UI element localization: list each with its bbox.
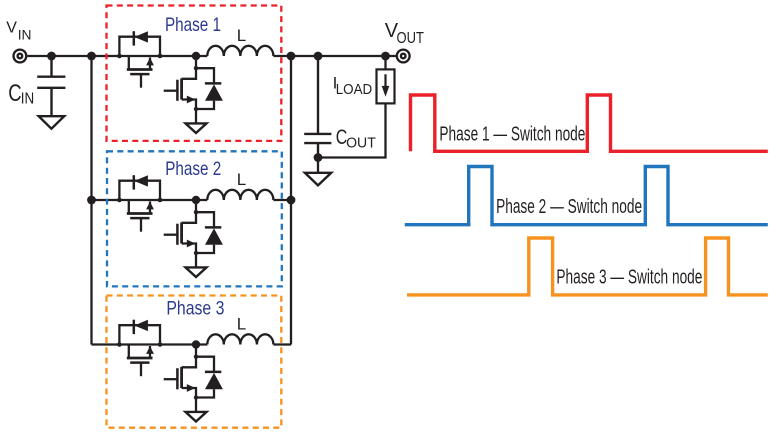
Q1 gate plate bbox=[130, 73, 149, 76]
Q4 body-diode triangle bbox=[205, 228, 223, 244]
inductor L2 bbox=[207, 190, 273, 200]
Q1 channel bar bbox=[127, 68, 153, 71]
node: output bus phase2 bbox=[287, 196, 296, 205]
ground stem (phase 1) bbox=[195, 109, 197, 123]
wire: inductor out to VOUT terminal bbox=[273, 55, 397, 57]
node Q1 drain bbox=[117, 54, 122, 59]
label VIN bbox=[6, 20, 31, 43]
waveform: phase 2 switch node (blue) bbox=[405, 167, 768, 225]
label ILOAD bbox=[333, 73, 373, 98]
Q6 body-diode branch bbox=[196, 357, 214, 372]
Q4 gate lead bbox=[164, 234, 178, 236]
Q5 gate lead bbox=[140, 363, 142, 377]
Q2 body-diode anode return bbox=[196, 101, 214, 109]
ground stem (output) bbox=[317, 158, 319, 173]
Q6 source arrow bbox=[187, 384, 196, 392]
Q4 body-diode anode return bbox=[196, 245, 214, 253]
Q2 gate lead bbox=[164, 90, 178, 92]
capacitor COUT bbox=[304, 56, 331, 158]
Q5 body-diode triangle bbox=[134, 320, 148, 331]
node: CIN junction bbox=[47, 52, 56, 61]
wire SW1 to Q6 drain bbox=[195, 345, 197, 357]
svg-text:IN: IN bbox=[21, 91, 34, 108]
node: switch node SW3 bbox=[192, 340, 200, 348]
output terminal VOUT bbox=[397, 50, 410, 63]
node Q2 source bbox=[194, 107, 198, 111]
node Q5 source bbox=[158, 342, 163, 347]
ground (phase 1) bbox=[186, 123, 207, 133]
svg-text:IN: IN bbox=[18, 27, 32, 43]
Q3 drain stub bbox=[128, 200, 130, 214]
wire: left input bus bbox=[90, 56, 92, 345]
wire SW1 to Q2 drain bbox=[195, 56, 197, 68]
node: output bus phase1 bbox=[287, 52, 296, 61]
Q1 gate lead bbox=[140, 74, 142, 88]
Q6 body-diode anode return bbox=[196, 389, 214, 397]
Q5 source arrow bbox=[146, 346, 154, 354]
node Q4 drain junction bbox=[194, 210, 198, 214]
Q5 source stub bbox=[149, 346, 151, 358]
wire: phase3 input bbox=[92, 343, 208, 345]
Q3 source arrow bbox=[146, 202, 154, 210]
node Q3 drain bbox=[117, 198, 122, 203]
ground (phase 3) bbox=[186, 412, 207, 422]
Q1 body-diode cathode bar bbox=[133, 31, 136, 45]
node Q6 source bbox=[194, 395, 198, 399]
ground stem (phase 2) bbox=[195, 253, 197, 267]
Q6 gate plate bbox=[176, 368, 179, 389]
current source ILOAD box bbox=[377, 69, 395, 103]
Q5 body-diode cathode bar bbox=[133, 320, 136, 334]
wire: phase3 output to bus bbox=[273, 343, 291, 345]
Phase 2 dashed box bbox=[107, 151, 282, 286]
node: left bus top bbox=[87, 52, 96, 61]
node: switch node SW2 bbox=[192, 196, 200, 204]
Q2 source arrow bbox=[187, 96, 196, 104]
Q3 gate lead bbox=[140, 218, 142, 232]
svg-text:Phase 2: Phase 2 bbox=[165, 158, 221, 180]
Q1 drain stub bbox=[128, 56, 130, 70]
svg-text:Phase 1 — Switch node: Phase 1 — Switch node bbox=[439, 123, 585, 146]
ground (phase 2) bbox=[186, 267, 207, 277]
Phase 3 circuit bbox=[117, 315, 273, 422]
node: ILOAD tap bbox=[381, 52, 390, 61]
low-side FET Q6 drain path bbox=[182, 357, 196, 368]
high-side FET Q3 body-diode loop bbox=[119, 181, 160, 200]
svg-text:V: V bbox=[6, 20, 17, 37]
high-side FET Q1 body-diode loop bbox=[119, 37, 160, 56]
Q2 source path bbox=[182, 100, 196, 110]
Q2 gate plate bbox=[176, 80, 179, 101]
node Q2 drain junction bbox=[194, 66, 198, 70]
high-side FET Q5 body-diode loop bbox=[119, 325, 160, 344]
ground stem (phase 3) bbox=[195, 398, 197, 412]
Q6 channel bar bbox=[180, 367, 183, 388]
label CIN bbox=[8, 80, 34, 108]
Phase 2 circuit bbox=[117, 170, 273, 277]
wire: phase2 input bbox=[92, 199, 208, 201]
node: COUT tap bbox=[314, 52, 323, 61]
Q3 gate plate bbox=[130, 217, 149, 220]
wire: output bus bbox=[290, 56, 292, 345]
Q5 gate plate bbox=[130, 361, 149, 364]
wire: ILOAD top bbox=[384, 56, 386, 69]
low-side FET Q4 drain path bbox=[182, 212, 196, 223]
Q4 gate plate bbox=[176, 224, 179, 245]
Q3 channel bar bbox=[127, 212, 153, 215]
Q6 gate lead bbox=[164, 378, 178, 380]
Q6 body-diode cathode bar bbox=[205, 371, 221, 374]
svg-text:Phase 3 — Switch node: Phase 3 — Switch node bbox=[556, 266, 702, 289]
low-side FET Q2 drain path bbox=[182, 68, 196, 79]
ground (output) bbox=[305, 173, 331, 186]
ground (CIN) bbox=[39, 116, 64, 129]
Phase 1 dashed box bbox=[107, 6, 282, 141]
Q1 body-diode triangle bbox=[134, 31, 148, 42]
input terminal VIN bbox=[14, 50, 27, 63]
Phase 3 dashed box bbox=[107, 296, 282, 428]
svg-text:Phase 2 — Switch node: Phase 2 — Switch node bbox=[496, 195, 642, 218]
Q2 channel bar bbox=[180, 78, 183, 99]
node Q6 drain junction bbox=[194, 355, 198, 359]
wire: phase2 output to bus bbox=[273, 199, 291, 201]
Q3 source stub bbox=[149, 202, 151, 214]
waveform: phase 3 switch node (orange) bbox=[407, 238, 768, 295]
node: switch node SW1 bbox=[192, 52, 200, 60]
svg-text:L: L bbox=[237, 315, 246, 334]
svg-text:Phase 3: Phase 3 bbox=[166, 298, 224, 320]
capacitor CIN bbox=[37, 56, 65, 116]
ILOAD arrow bbox=[382, 74, 390, 97]
svg-text:LOAD: LOAD bbox=[336, 81, 373, 98]
Q4 body-diode branch bbox=[196, 212, 214, 227]
svg-text:L: L bbox=[237, 26, 246, 45]
Q2 body-diode cathode bar bbox=[205, 82, 221, 85]
Q6 body-diode triangle bbox=[205, 373, 223, 389]
Q1 source arrow bbox=[146, 58, 154, 66]
Q5 drain stub bbox=[128, 345, 130, 359]
waveform: phase 1 switch node (red) bbox=[411, 95, 768, 151]
Q4 source path bbox=[182, 244, 196, 254]
Q6 source path bbox=[182, 388, 196, 398]
Q4 channel bar bbox=[180, 222, 183, 243]
Q3 body-diode triangle bbox=[134, 175, 148, 186]
svg-text:L: L bbox=[237, 170, 246, 189]
node Q3 source bbox=[158, 198, 163, 203]
svg-text:OUT: OUT bbox=[346, 135, 376, 152]
wire: ILOAD bottom return bbox=[318, 103, 386, 157]
Q5 channel bar bbox=[127, 357, 153, 360]
Q2 body-diode branch bbox=[196, 68, 214, 83]
label COUT bbox=[336, 126, 376, 151]
Q4 body-diode cathode bar bbox=[205, 226, 221, 229]
node: output ground junction bbox=[314, 153, 323, 162]
Phase 1 circuit bbox=[117, 26, 273, 133]
label VOUT bbox=[385, 20, 424, 47]
svg-text:OUT: OUT bbox=[397, 30, 425, 47]
svg-text:Phase 1: Phase 1 bbox=[165, 14, 221, 36]
Q3 body-diode cathode bar bbox=[133, 175, 136, 189]
node Q5 drain bbox=[117, 342, 122, 347]
Q2 body-diode triangle bbox=[205, 84, 223, 100]
wire: VIN rail to inductor (phase 1 row) bbox=[28, 55, 208, 57]
node Q1 source bbox=[158, 54, 163, 59]
svg-text:C: C bbox=[8, 80, 21, 107]
inductor L3 bbox=[207, 334, 273, 344]
Q1 source stub bbox=[149, 58, 151, 70]
wire SW1 to Q4 drain bbox=[195, 200, 197, 212]
node: left bus phase2 tap bbox=[87, 196, 96, 205]
node Q4 source bbox=[194, 251, 198, 255]
Q4 source arrow bbox=[187, 240, 196, 248]
inductor L1 bbox=[207, 46, 273, 56]
